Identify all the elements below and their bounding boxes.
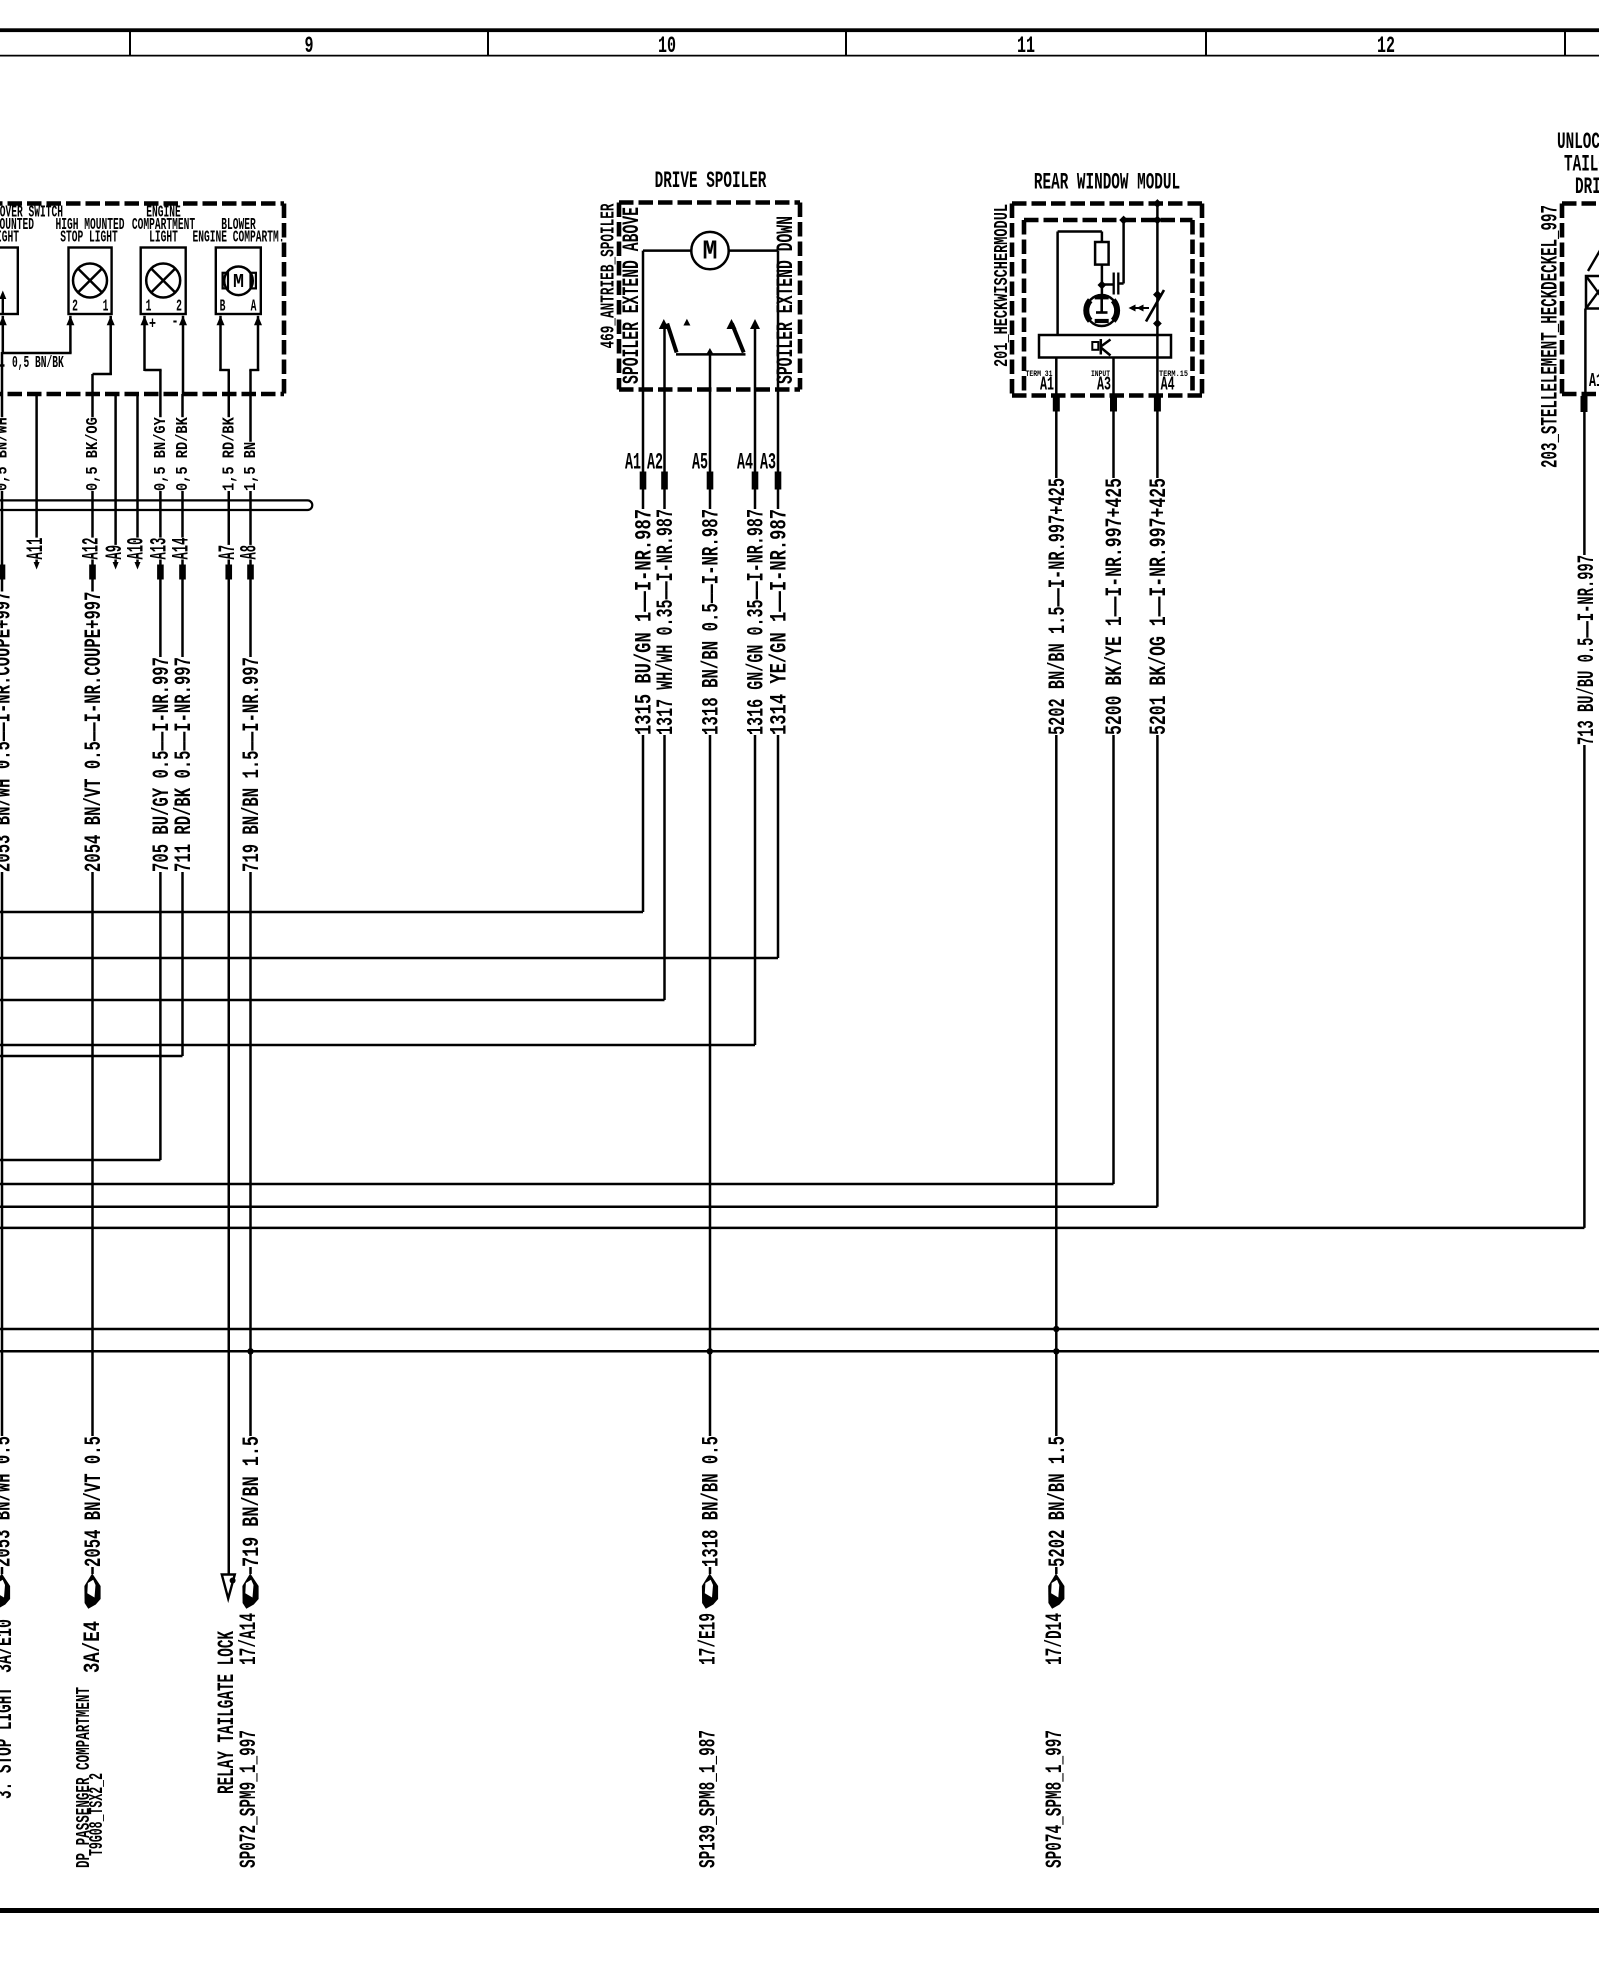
svg-text:719 BN/BN 1.5: 719 BN/BN 1.5	[239, 1436, 265, 1567]
svg-text:A1: A1	[1589, 370, 1599, 392]
svg-text:A3: A3	[1097, 374, 1111, 396]
svg-text:1,5 BN: 1,5 BN	[241, 442, 260, 491]
svg-text:0,5 RD/BK: 0,5 RD/BK	[173, 417, 192, 491]
svg-text:M: M	[703, 238, 718, 268]
svg-text:LIGHT: LIGHT	[149, 228, 178, 247]
svg-text:12: 12	[1377, 33, 1395, 59]
svg-text:17/E19: 17/E19	[696, 1613, 722, 1665]
svg-text:3A/E10: 3A/E10	[0, 1619, 18, 1673]
svg-text:LIGHT: LIGHT	[0, 228, 19, 247]
svg-text:713 BU/BU 0.5——I-NR.997: 713 BU/BU 0.5——I-NR.997	[1574, 555, 1599, 745]
svg-text:A8: A8	[237, 545, 263, 560]
svg-text:1318 BN/BN 0.5: 1318 BN/BN 0.5	[699, 1436, 725, 1567]
svg-text:3. STOP LIGHT: 3. STOP LIGHT	[0, 1687, 18, 1799]
svg-text:1318 BN/BN 0.5——I-NR.987: 1318 BN/BN 0.5——I-NR.987	[699, 509, 725, 735]
svg-text:A2: A2	[647, 450, 663, 476]
svg-text:1: 1	[146, 297, 152, 316]
svg-text:11: 11	[1017, 33, 1035, 59]
svg-text:DRIVE SPOILER: DRIVE SPOILER	[655, 168, 767, 194]
svg-text:5202 BN/BN 1.5——I-NR.997+425: 5202 BN/BN 1.5——I-NR.997+425	[1045, 478, 1071, 735]
svg-text:0,5 BN/BK: 0,5 BN/BK	[12, 353, 64, 372]
svg-text:17/A14: 17/A14	[236, 1613, 262, 1665]
svg-text:2053 BN/WH 0.5: 2053 BN/WH 0.5	[0, 1436, 17, 1567]
svg-text:B: B	[220, 297, 226, 316]
svg-text:M: M	[233, 271, 244, 293]
svg-text:0,5 BN/WH: 0,5 BN/WH	[0, 417, 12, 491]
svg-text:1,5 RD/BK: 1,5 RD/BK	[219, 417, 238, 491]
svg-text:A5: A5	[692, 450, 708, 476]
svg-text:A14: A14	[169, 538, 195, 560]
svg-text:3A/E4: 3A/E4	[80, 1621, 106, 1673]
svg-text:0,5 BN/GY: 0,5 BN/GY	[151, 417, 170, 491]
svg-text:SP074_SPM8_1_997: SP074_SPM8_1_997	[1042, 1730, 1068, 1868]
svg-text:5202 BN/BN 1.5: 5202 BN/BN 1.5	[1045, 1436, 1071, 1567]
svg-text:SP139_SPM8_1_987: SP139_SPM8_1_987	[696, 1730, 722, 1868]
svg-text:5201 BK/OG 1——I-NR.997+425: 5201 BK/OG 1——I-NR.997+425	[1146, 478, 1172, 735]
svg-text:A4: A4	[737, 450, 753, 476]
svg-text:10: 10	[658, 33, 676, 59]
svg-text:A: A	[251, 297, 257, 316]
svg-text:A11: A11	[23, 538, 49, 560]
svg-text:REAR WINDOW MODUL: REAR WINDOW MODUL	[1034, 170, 1180, 196]
svg-text:SP072_SPM9_1_997: SP072_SPM9_1_997	[236, 1730, 262, 1868]
svg-text:2054 BN/VT 0.5: 2054 BN/VT 0.5	[81, 1436, 107, 1567]
svg-text:A12: A12	[79, 538, 105, 560]
svg-text:9: 9	[305, 33, 314, 59]
svg-text:201_HECKWISCHERMODUL: 201_HECKWISCHERMODUL	[991, 204, 1013, 367]
svg-text:719 BN/BN 1.5——I-NR.997: 719 BN/BN 1.5——I-NR.997	[239, 657, 265, 872]
svg-text:+: +	[149, 315, 156, 334]
svg-text:A1: A1	[1040, 374, 1054, 396]
svg-text:1317 WH/WH 0.35——I-NR.987: 1317 WH/WH 0.35——I-NR.987	[653, 509, 679, 735]
svg-text:1: 1	[103, 297, 109, 316]
svg-text:T9G08_TSX2_2: T9G08_TSX2_2	[86, 1773, 108, 1856]
svg-text:A3: A3	[760, 450, 776, 476]
svg-text:2054 BN/VT 0.5——I-NR.COUPE+997: 2054 BN/VT 0.5——I-NR.COUPE+997	[81, 592, 107, 873]
svg-text:1314 YE/GN 1——I-NR.987: 1314 YE/GN 1——I-NR.987	[767, 509, 793, 735]
svg-text:STOP LIGHT: STOP LIGHT	[60, 228, 118, 247]
svg-text:17/D14: 17/D14	[1042, 1613, 1068, 1665]
svg-text:711 RD/BK 0.5——I-NR.997: 711 RD/BK 0.5——I-NR.997	[171, 657, 197, 872]
svg-text:DRIVE: DRIVE	[1575, 174, 1599, 200]
svg-text:5200 BK/YE 1——I-NR.997+425: 5200 BK/YE 1——I-NR.997+425	[1102, 478, 1128, 735]
svg-text:SPOILER EXTEND ABOVE: SPOILER EXTEND ABOVE	[619, 207, 645, 384]
svg-text:A1: A1	[625, 450, 641, 476]
svg-text:203_STELLELEMENT_HECKDECKEL_99: 203_STELLELEMENT_HECKDECKEL_997	[1538, 205, 1564, 468]
svg-text:2053 BN/WH 0.5——I-NR.COUPE+997: 2053 BN/WH 0.5——I-NR.COUPE+997	[0, 592, 17, 873]
svg-text:ENGINE COMPARTM.: ENGINE COMPARTM.	[193, 228, 285, 247]
svg-text:A4: A4	[1161, 374, 1175, 396]
svg-text:-: -	[172, 312, 179, 331]
svg-text:469_ANTRIEB_SPOILER: 469_ANTRIEB_SPOILER	[598, 203, 620, 348]
svg-text:2: 2	[72, 297, 78, 316]
svg-text:0,5 BK/OG: 0,5 BK/OG	[83, 417, 102, 491]
